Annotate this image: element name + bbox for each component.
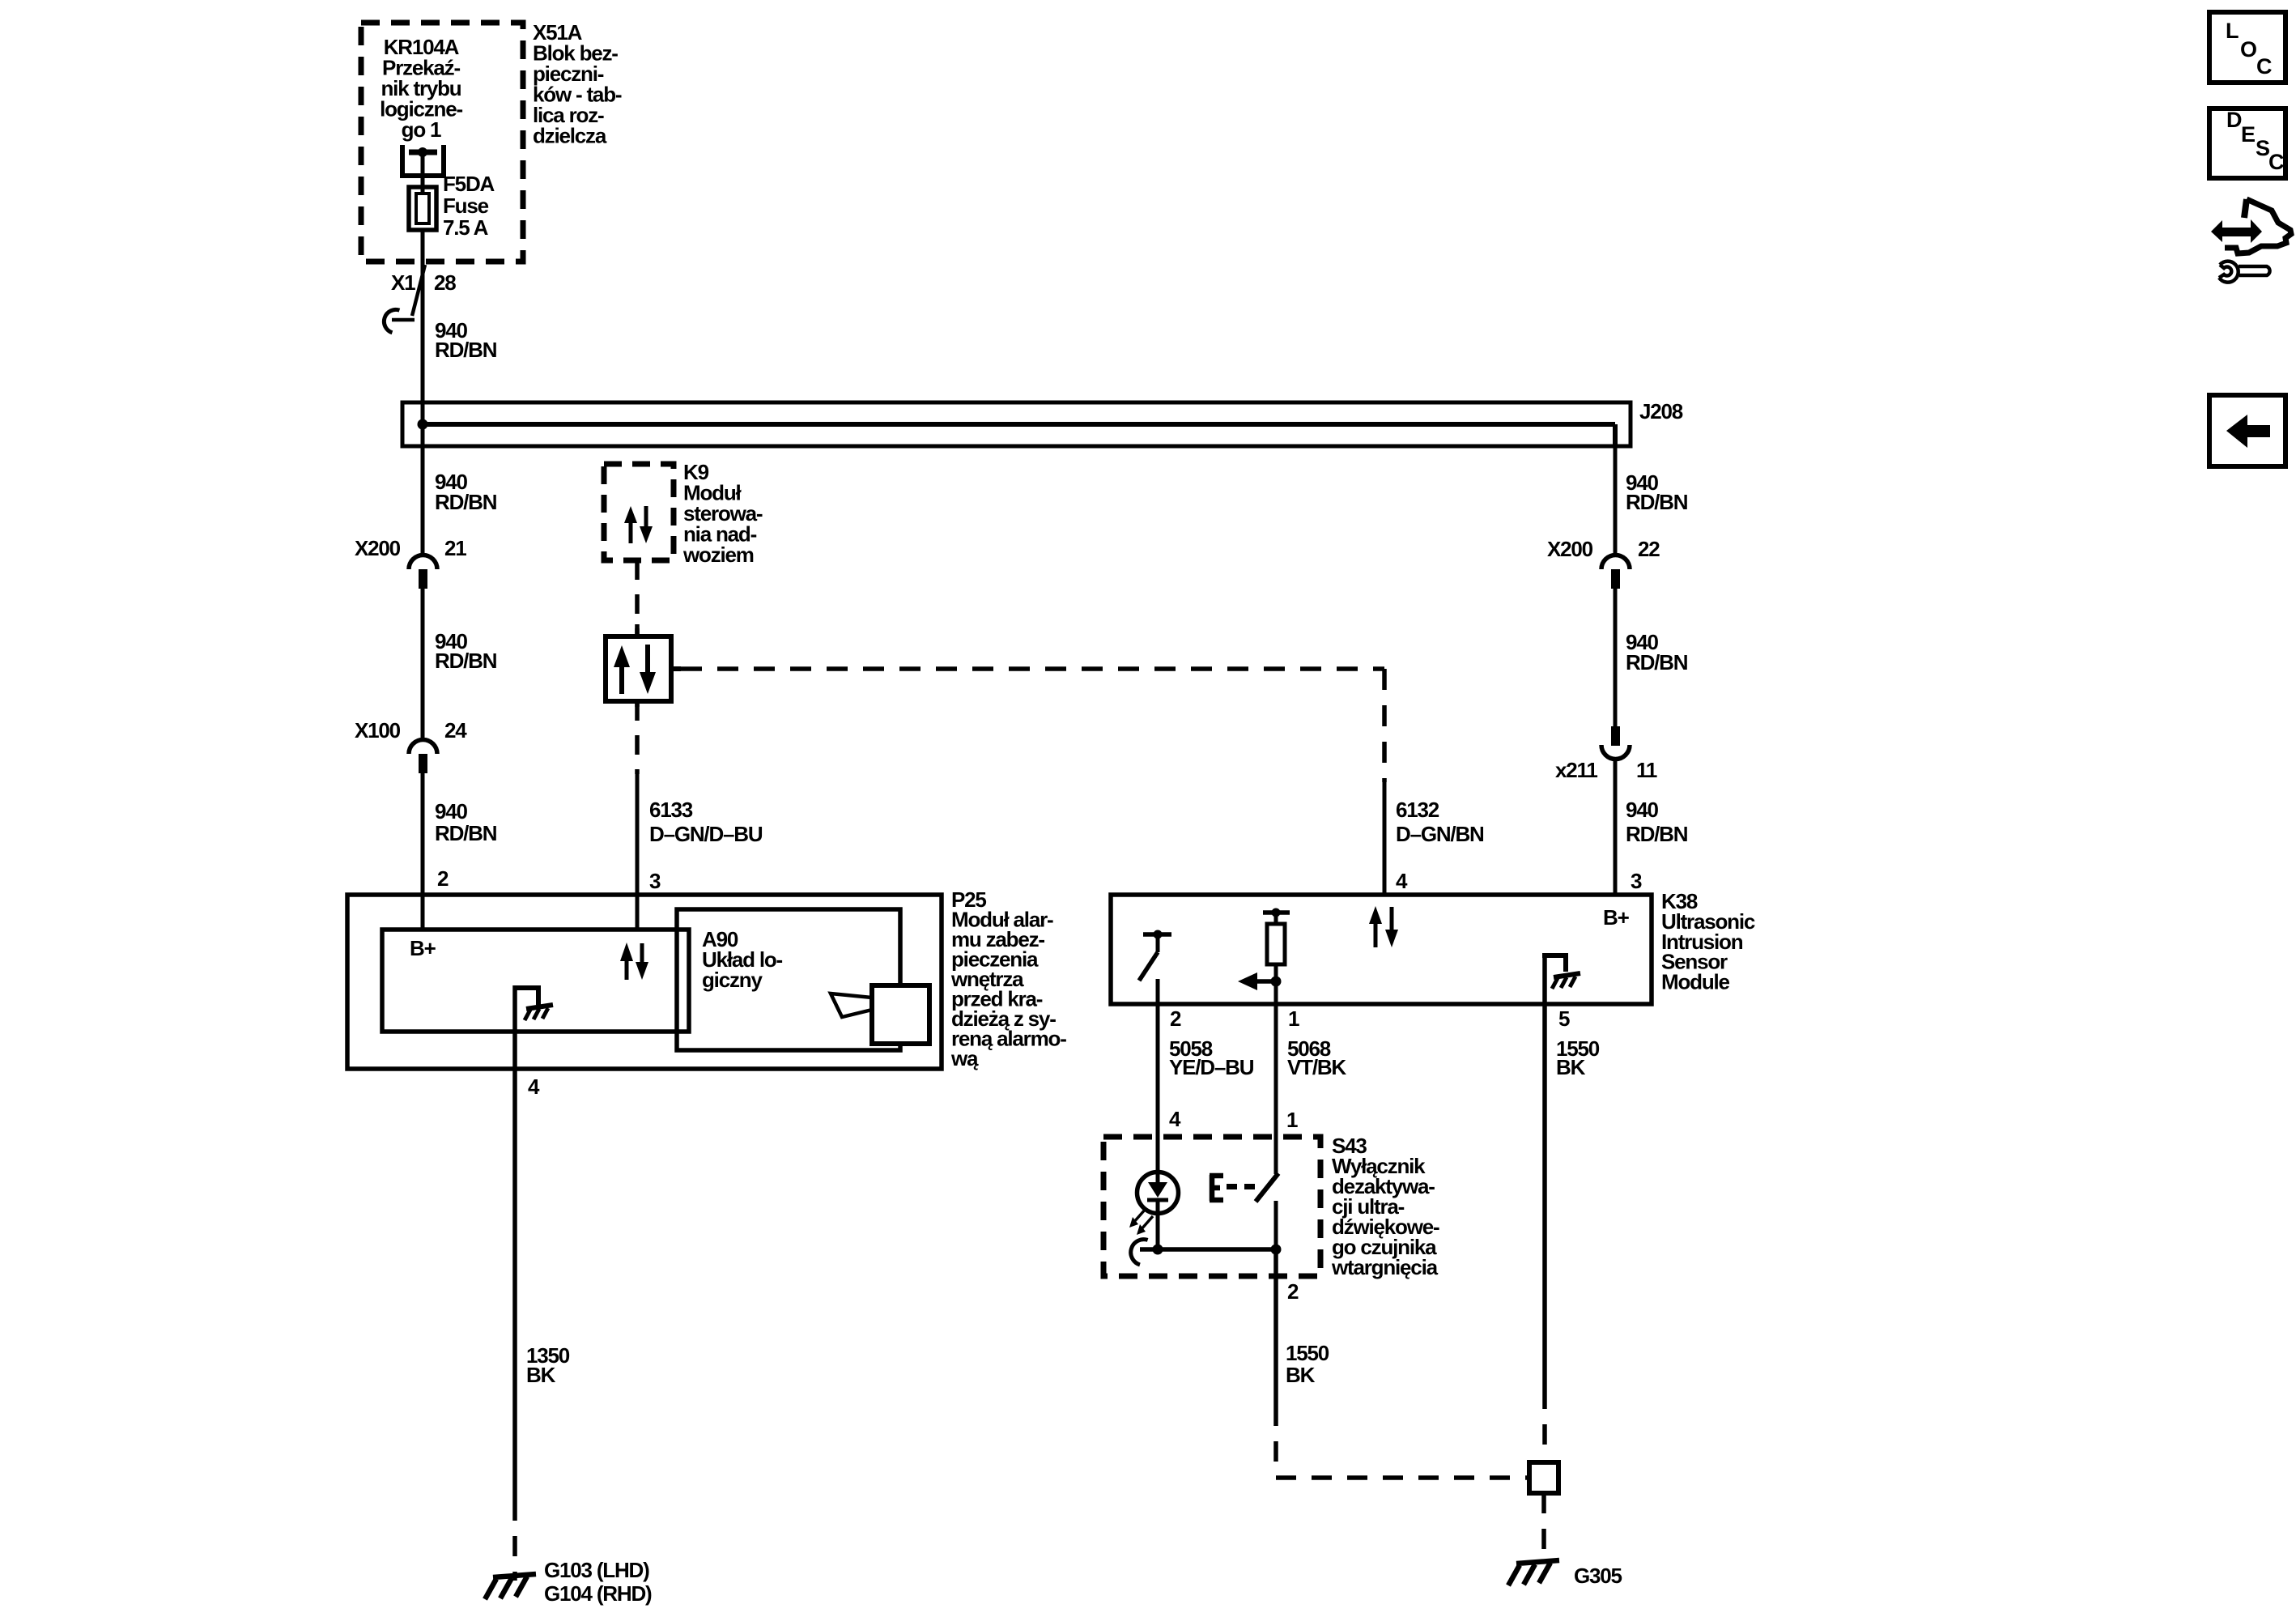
fuse block X51A (dashed box) (361, 23, 523, 262)
label B+ inside P25 (410, 936, 436, 960)
internal ground symbol inside P25 (515, 988, 553, 1020)
label G103 G104 (544, 1558, 652, 1606)
svg-text:E: E (2241, 122, 2256, 147)
wire S43 pin 2 down (1273, 1249, 1278, 1476)
icon DESC box (2209, 108, 2285, 178)
svg-text:giczny: giczny (702, 968, 763, 992)
ultrasonic intrusion sensor module K38 (box) (1111, 895, 1652, 1004)
label wire 1350 BK (526, 1343, 570, 1387)
internal ground symbol inside K38 (1542, 953, 1580, 1004)
icon LOC box (2209, 12, 2285, 83)
logic circuit A90 box (677, 909, 900, 1050)
label wire 5068 VT/BK (1287, 1036, 1346, 1079)
svg-text:dzielcza: dzielcza (533, 124, 607, 148)
splice square at G305 (1529, 1462, 1558, 1493)
label G305 (1574, 1564, 1622, 1588)
label connector X200 pin 22 (1547, 537, 1660, 561)
label wire 1550 BK (S43 side) (1286, 1341, 1329, 1387)
wire S43 internal horizontal (1140, 1247, 1276, 1252)
svg-text:11: 11 (1636, 758, 1657, 782)
svg-text:C: C (2256, 54, 2273, 79)
svg-text:21: 21 (444, 536, 466, 560)
svg-text:X1: X1 (391, 270, 415, 295)
data arrows inside interface box (614, 645, 656, 694)
svg-text:5: 5 (1558, 1006, 1570, 1031)
label X51A fuse block (533, 20, 622, 148)
switch lever inside S43 (1256, 1173, 1278, 1202)
data arrows inside K38 (1369, 906, 1398, 947)
svg-text:go 1: go 1 (402, 117, 441, 142)
svg-text:F5DA: F5DA (443, 172, 495, 196)
label wire 6132 D-GN/BN (1396, 798, 1484, 846)
icon wrench (2219, 262, 2270, 283)
resistor symbol inside K38 (1263, 908, 1290, 1005)
data arrows inside P25 inner box (620, 943, 648, 980)
svg-text:940: 940 (435, 799, 468, 823)
label pin 4 of K38 (1396, 869, 1408, 893)
junction dot S43 left (1153, 1245, 1163, 1255)
svg-text:D–GN/D–BU: D–GN/D–BU (649, 822, 763, 846)
svg-text:RD/BN: RD/BN (435, 821, 497, 845)
svg-text:940: 940 (1626, 798, 1659, 822)
svg-text:24: 24 (444, 718, 467, 743)
wire dashed below splice to G305 (1541, 1493, 1546, 1561)
label wire 940 RD/BN (left lower) (435, 799, 497, 845)
svg-text:B+: B+ (410, 936, 436, 960)
label pin 1 of K38 (1288, 1006, 1299, 1031)
wire 1350 BK (512, 1069, 517, 1581)
label J208 (1639, 399, 1683, 423)
wire X100-24 to P25 pin 2 (421, 773, 425, 930)
svg-text:RD/BN: RD/BN (435, 649, 497, 673)
svg-text:X100: X100 (355, 718, 401, 743)
icon back arrow box (2209, 395, 2285, 466)
svg-text:L: L (2226, 19, 2239, 43)
svg-text:RD/BN: RD/BN (435, 338, 497, 362)
fuse F5DA (409, 187, 436, 230)
LED light emission arrows (1129, 1209, 1153, 1235)
ground G103/G104 (485, 1574, 536, 1599)
svg-text:G305: G305 (1574, 1564, 1622, 1588)
svg-text:G103 (LHD): G103 (LHD) (544, 1558, 649, 1582)
svg-text:O: O (2240, 37, 2257, 62)
svg-text:x211: x211 (1555, 758, 1597, 782)
svg-text:7.5 A: 7.5 A (443, 215, 489, 240)
junction dot and left arrow inside K38 (1238, 972, 1282, 990)
connector x211 pin 11 symbol (1601, 726, 1630, 760)
label wire 1550 BK (right) (1556, 1036, 1600, 1079)
wire S43 pin 1 lower contact (1274, 1201, 1278, 1249)
body control module K9 (dashed box) (604, 464, 674, 560)
siren horn symbol (831, 985, 929, 1044)
label wire 940 RD/BN (right lower) (1626, 798, 1688, 846)
label pin 4 of S43 (1169, 1107, 1181, 1131)
label wire 940 RD/BN (left mid) (435, 629, 497, 673)
label wire 5058 YE/D-BU (1169, 1036, 1254, 1079)
ultrasonic deactivation switch S43 (dashed box) (1103, 1137, 1320, 1276)
label KR104A relay (380, 35, 462, 142)
svg-text:4: 4 (528, 1074, 540, 1099)
svg-text:X200: X200 (355, 536, 401, 560)
wire dashed from interface box to K38 pin 4 branch (681, 669, 1384, 782)
junction dot J208 left (418, 419, 428, 430)
label pin 3 of P25 (649, 869, 661, 893)
label B+ inside K38 (1603, 905, 1630, 930)
wire interface box right stub (671, 666, 681, 671)
wire solid to K38 pin 4 (1383, 782, 1387, 895)
wire dashed from interface box down to P25 pin 3 (635, 701, 640, 930)
svg-text:X200: X200 (1547, 537, 1593, 561)
svg-text:BK: BK (526, 1363, 556, 1387)
wire through J208 (left vertical) (421, 402, 425, 554)
svg-text:2: 2 (437, 866, 449, 891)
label pin 2 of K38 (1170, 1006, 1181, 1031)
svg-text:1: 1 (1286, 1108, 1298, 1132)
svg-text:wą: wą (950, 1046, 979, 1070)
svg-text:Module: Module (1661, 970, 1730, 994)
label connector X200 pin 21 (355, 536, 466, 560)
label wire 940 RD/BN (right mid) (1626, 630, 1688, 674)
wire K38 pin 1 to S43 pin 1 (1274, 1004, 1278, 1174)
label K9 module (682, 460, 763, 567)
svg-text:woziem: woziem (682, 543, 754, 567)
label pin 5 of K38 (1558, 1006, 1570, 1031)
wire ground to pin 4 of P25 (512, 985, 517, 1069)
svg-text:1550: 1550 (1286, 1341, 1329, 1365)
svg-text:YE/D–BU: YE/D–BU (1169, 1055, 1254, 1079)
wire K38 pin 5 (1550 BK) (1542, 1004, 1547, 1462)
svg-text:RD/BN: RD/BN (1626, 490, 1688, 514)
svg-text:G104 (RHD): G104 (RHD) (544, 1581, 652, 1606)
wire dashed horizontal to G305 splice (1276, 1475, 1529, 1480)
manual switch E symbol inside S43 (1210, 1175, 1255, 1201)
svg-text:3: 3 (1631, 869, 1642, 893)
label P25 module (950, 887, 1066, 1070)
svg-text:VT/BK: VT/BK (1287, 1055, 1346, 1079)
label X1 28 (391, 270, 456, 295)
svg-text:4: 4 (1169, 1107, 1181, 1131)
label pin 3 of K38 (1631, 869, 1642, 893)
wire J208 to X200-22 (1614, 446, 1618, 554)
label wire 940 RD/BN (right top) (1626, 470, 1688, 514)
svg-text:2: 2 (1287, 1279, 1299, 1304)
connector X100 pin 24 symbol (409, 740, 437, 774)
wire K38 pin 2 to S43 pin 4 (1156, 1004, 1160, 1172)
label connector x211 pin 11 (1555, 758, 1657, 782)
connector X200 pin 21 symbol (409, 555, 437, 589)
LED indicator inside S43 (1137, 1172, 1179, 1250)
P25 inner function box (382, 930, 689, 1032)
connector hook symbol inside S43 (1128, 1236, 1147, 1265)
svg-text:6133: 6133 (649, 798, 693, 822)
sensor switch symbol inside K38 (1139, 930, 1171, 1005)
theft deterrent alarm module P25 (outer box) (347, 895, 942, 1069)
label S43 switch (1331, 1134, 1439, 1279)
label A90 logic unit (702, 927, 783, 992)
label K38 module (1661, 889, 1755, 994)
label fuse F5DA (443, 172, 495, 240)
svg-text:C: C (2268, 150, 2285, 174)
ground G305 (1508, 1560, 1559, 1585)
junction dot S43 right (1271, 1245, 1282, 1255)
connector X1 pin 28 symbol (381, 265, 425, 333)
label wire 6133 D-GN/D-BU (649, 798, 763, 846)
serial data interface box (606, 624, 671, 707)
svg-text:1: 1 (1288, 1006, 1299, 1031)
svg-text:22: 22 (1638, 537, 1660, 561)
label pin 1 of S43 (1286, 1108, 1298, 1132)
svg-text:Fuse: Fuse (443, 194, 489, 218)
wire X200-21 to X100-24 (421, 589, 425, 739)
data arrows inside K9 (624, 506, 653, 543)
svg-text:28: 28 (434, 270, 456, 295)
svg-text:D: D (2226, 108, 2243, 132)
svg-text:BK: BK (1286, 1363, 1316, 1387)
svg-text:B+: B+ (1603, 905, 1630, 930)
label connector X100 pin 24 (355, 718, 467, 743)
relay KR104A contact symbol (402, 145, 444, 193)
svg-text:BK: BK (1556, 1055, 1586, 1079)
wire X200-22 to x211 (1614, 589, 1618, 728)
label pin 2 of S43 (1287, 1279, 1299, 1304)
svg-text:2: 2 (1170, 1006, 1181, 1031)
svg-text:J208: J208 (1639, 399, 1683, 423)
label pin 4 of P25 (528, 1074, 540, 1099)
svg-text:wtargnięcia: wtargnięcia (1331, 1255, 1439, 1279)
label wire 940 RD/BN (top) (435, 318, 497, 362)
icon connector with arrow (2211, 199, 2291, 253)
label wire 940 RD/BN (left, below J208) (435, 470, 497, 514)
svg-text:RD/BN: RD/BN (1626, 822, 1688, 846)
svg-text:3: 3 (649, 869, 661, 893)
label pin 2 of P25 (437, 866, 449, 891)
splice pack J208 (bus) (402, 402, 1631, 446)
connector X200 pin 22 symbol (1601, 555, 1630, 589)
svg-text:6132: 6132 (1396, 798, 1439, 822)
svg-text:D–GN/BN: D–GN/BN (1396, 822, 1484, 846)
wire K9 to serial-data box (dashed) (635, 560, 640, 636)
wire x211 to K38 pin 3 (1614, 760, 1618, 895)
svg-text:RD/BN: RD/BN (435, 490, 497, 514)
svg-text:4: 4 (1396, 869, 1408, 893)
svg-text:RD/BN: RD/BN (1626, 650, 1688, 674)
wire fuse to J208 (421, 230, 425, 404)
